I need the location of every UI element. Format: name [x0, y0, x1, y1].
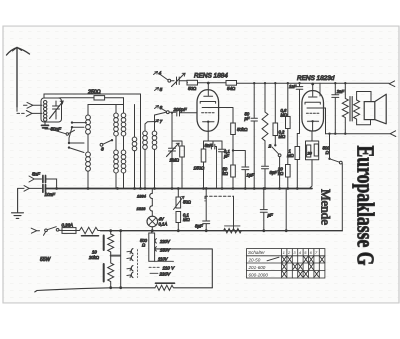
svg-text:1884: 1884 [137, 194, 147, 199]
resistor 54ohm [226, 81, 237, 86]
svg-text:110 V: 110 V [163, 265, 176, 270]
switch S-ant lever [50, 129, 66, 134]
resistor 50k lower [231, 165, 236, 177]
wire link tops y104.5 [88, 104, 124, 106]
tap 150V [155, 247, 156, 251]
antenna coupling coil box [41, 98, 62, 122]
terminal earth arrow [24, 186, 29, 192]
svg-text:3: 3 [101, 147, 104, 153]
svg-text:µF: µF [224, 154, 229, 159]
capacitor 50nF [45, 122, 50, 129]
svg-text:150V: 150V [160, 248, 171, 253]
resistor 0.1M [176, 212, 181, 223]
transformer T-out core [350, 97, 352, 122]
antenna coil winding upper [44, 101, 47, 111]
node input terminal lower (dashed feed) [17, 112, 26, 114]
speaker anode line [326, 133, 391, 135]
tuning capacitor C-tune [169, 141, 176, 189]
svg-text:2nF: 2nF [336, 89, 345, 94]
coil L3 column x=123.5 [123, 98, 125, 113]
speaker LS [364, 102, 375, 120]
switch S3 [100, 143, 103, 146]
svg-text:MΩ: MΩ [183, 217, 190, 222]
svg-text:kΩ: kΩ [223, 171, 229, 176]
contact 5 [155, 88, 159, 91]
resistor 50k anode [231, 123, 236, 135]
svg-text:200pF: 200pF [173, 107, 188, 112]
wire 7 to coil L5 [145, 122, 158, 125]
resistor mains lower [155, 285, 173, 290]
svg-text:54Ω: 54Ω [227, 86, 236, 91]
capacitor 0.1uF [219, 141, 226, 189]
coil L4 column x=134.5 [134, 105, 136, 138]
svg-text:0,1A: 0,1A [159, 221, 168, 226]
capacitor 200pF [169, 109, 197, 116]
coil L2 column x=116 [115, 105, 117, 114]
svg-text:50kΩ: 50kΩ [237, 127, 248, 132]
legend 110V [149, 266, 161, 268]
capacitor 8uF main [203, 189, 210, 231]
wire switch drop [69, 127, 72, 143]
cathode branch wires [204, 131, 223, 149]
arrow terminal right top [389, 81, 395, 87]
svg-text:RENS 1823d: RENS 1823d [297, 75, 335, 82]
selector right wire [155, 249, 213, 288]
wire secondary to speaker [357, 92, 371, 102]
svg-text:10nF: 10nF [45, 192, 57, 197]
contact 7 [155, 120, 159, 123]
svg-text:110V: 110V [158, 256, 169, 261]
resistor cathode a [307, 145, 311, 157]
svg-text:2: 2 [268, 144, 272, 150]
svg-text:20kΩ: 20kΩ [88, 255, 100, 260]
wire long vertical x140.5 [140, 94, 142, 189]
cathode network loop U2 [311, 131, 313, 141]
transformer T-out primary [342, 83, 348, 134]
transformer T-out secondary [354, 100, 360, 119]
wire taps to coil L1 [72, 123, 87, 128]
svg-text:pF: pF [244, 116, 250, 121]
svg-text:MΩ: MΩ [279, 134, 286, 139]
svg-text:7: 7 [160, 119, 163, 125]
arrow terminal right lower [390, 131, 396, 137]
switch lever from 6 [161, 108, 167, 111]
resistor fine zigzag [224, 229, 242, 233]
svg-text:220V: 220V [159, 239, 171, 244]
switch S2 [274, 144, 276, 146]
node input terminal upper [24, 104, 28, 106]
capacitor 1nF coupling [296, 83, 303, 133]
resistor cathode b [314, 144, 318, 156]
heater winding taps [151, 189, 153, 194]
wire to next resistor [198, 82, 227, 84]
main chassis bus [45, 188, 312, 190]
trimmer capacitor C-pad [171, 77, 187, 85]
transformer T-net primary upper [108, 231, 114, 253]
resistor zigzag screen [262, 83, 268, 165]
switch lever from 4 [160, 74, 169, 80]
svg-text:8µF: 8µF [195, 224, 203, 229]
resistor barretter [76, 227, 100, 233]
coil L5 column x=145 [144, 124, 146, 131]
svg-text:5: 5 [160, 87, 163, 93]
capacitor 1uF [233, 151, 249, 189]
antenna coil winding lower [44, 111, 47, 121]
main plate line y83 [186, 82, 189, 84]
supply bus2 [101, 230, 343, 232]
wire terminals into coil box [32, 105, 42, 113]
svg-text:MΩ: MΩ [287, 153, 294, 158]
anode wire to 50k chain [214, 108, 233, 124]
svg-text:50Ω: 50Ω [183, 200, 192, 205]
svg-text:250Ω: 250Ω [87, 90, 101, 96]
resistor 0.2M branch [274, 83, 276, 123]
transformer secondary line [120, 231, 122, 288]
coil L1 column x=88 [87, 105, 89, 116]
svg-text:1MΩ: 1MΩ [170, 158, 180, 163]
svg-text:1µF: 1µF [247, 173, 255, 178]
node dots pair upper [68, 121, 73, 148]
capacitor 1nF output [332, 83, 339, 134]
svg-text:Schalter: Schalter [248, 250, 265, 255]
plate supply wire right [237, 82, 390, 84]
variable resistor 50ohm [177, 189, 179, 198]
svg-text:1nF: 1nF [289, 84, 297, 89]
voltage selector resistor [151, 231, 153, 233]
svg-text:Europaklasse G: Europaklasse G [352, 146, 379, 266]
capacitor 8uF screen [262, 166, 269, 188]
resistor grid leak [180, 146, 185, 157]
anode wire U2 to output [319, 108, 326, 134]
svg-text:µF: µF [268, 213, 274, 218]
trimmer capacitor in box [53, 101, 60, 119]
mains terminal L [31, 228, 39, 233]
mains switch [45, 229, 48, 232]
svg-text:1823: 1823 [137, 206, 147, 211]
svg-text:RENS 1884: RENS 1884 [194, 73, 228, 80]
svg-text:8µF: 8µF [270, 170, 278, 175]
dashed link [205, 196, 234, 201]
svg-text:Mende: Mende [319, 189, 333, 225]
svg-text:kΩ: kΩ [278, 171, 284, 176]
capacitor 10nF series [29, 187, 41, 189]
capacitor 50pF branch [251, 83, 257, 188]
wire resistor to col3 vertical [105, 97, 124, 99]
svg-text:150Ω: 150Ω [194, 166, 205, 171]
contact 6 [155, 106, 159, 109]
coil L6 column x=154.5 [155, 112, 166, 115]
wire box top to y94 rail [44, 94, 141, 98]
tube U1 RENS1884 [197, 90, 219, 131]
lamp dial [147, 216, 158, 227]
svg-text:5nF: 5nF [32, 172, 41, 177]
svg-text:1: 1 [283, 250, 285, 255]
band table [247, 249, 325, 278]
transformer T-net primary lower [108, 253, 114, 288]
svg-text:220V: 220V [159, 272, 172, 277]
capacitor reservoir uF [260, 189, 267, 231]
bus junction dots [55, 187, 298, 190]
resistor 1M grid leak U2 [296, 134, 298, 147]
svg-text:0,26A: 0,26A [62, 222, 74, 227]
contact 4 [154, 72, 158, 75]
resistor 150ohm [201, 149, 206, 162]
wire bus to bus2 [285, 189, 287, 231]
svg-text:201-600: 201-600 [248, 265, 266, 270]
grid branch down [172, 113, 182, 146]
antenna [7, 48, 30, 108]
ground [12, 188, 24, 218]
wire antenna elbow [16, 107, 18, 111]
wire box right to resistor [58, 97, 94, 99]
mains lower wire [37, 288, 155, 291]
transformer tap bar [111, 255, 120, 257]
resistor 250ohm [94, 96, 105, 100]
svg-text:50Ω: 50Ω [188, 86, 197, 91]
svg-text:55W: 55W [40, 257, 52, 263]
svg-text:20-50: 20-50 [248, 258, 261, 263]
tap 220V [155, 239, 156, 243]
svg-text:600-2000: 600-2000 [249, 272, 269, 277]
resistor 0.6M branch [287, 83, 289, 116]
resistor 50ohm [187, 80, 198, 85]
svg-text:10: 10 [92, 250, 97, 255]
transformer T-net core bars [103, 236, 105, 251]
svg-text:20: 20 [307, 152, 313, 156]
tube U2 RENS1823d [302, 91, 324, 131]
legend 220V [150, 272, 158, 274]
switch 500ohm [329, 134, 331, 158]
selector hook contacts [131, 249, 133, 254]
